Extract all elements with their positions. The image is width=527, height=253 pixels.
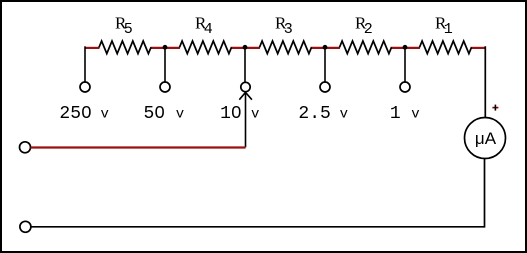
svg-text:μA: μA: [475, 129, 497, 148]
node C junction dot: [323, 45, 328, 50]
label 2.5 v: [298, 104, 348, 124]
svg-text:3: 3: [284, 21, 293, 38]
svg-text:50: 50: [143, 104, 165, 124]
svg-text:10: 10: [220, 104, 242, 124]
label R4: [195, 14, 213, 39]
svg-text:2.5: 2.5: [298, 104, 330, 124]
terminal 250V: [80, 82, 90, 92]
wire R2 to node D: [391, 47, 421, 49]
meter polarity +: [492, 105, 498, 111]
node D junction dot: [403, 45, 408, 50]
label 10 v: [220, 104, 259, 124]
terminal 10V: [241, 82, 250, 91]
svg-text:v: v: [411, 107, 419, 123]
label R2: [355, 14, 373, 39]
wire node C down to 2.5V terminal: [324, 47, 326, 82]
svg-text:v: v: [251, 107, 259, 123]
meter M1: [465, 118, 506, 159]
terminal 50V: [160, 82, 170, 92]
selector arrow wire: [245, 92, 247, 147]
wire meter up to top bus: [484, 46, 486, 117]
wire bottom bus: [31, 226, 485, 228]
input terminal top left: [20, 142, 31, 153]
wire node B down to 10V terminal: [244, 47, 246, 82]
label R1: [435, 14, 453, 39]
selector arrowhead: [239, 92, 252, 99]
svg-text:4: 4: [204, 21, 213, 38]
label 1 v: [390, 104, 420, 124]
wire node D down to 1V terminal: [404, 47, 406, 82]
wire left corner down to 250V terminal: [84, 46, 86, 82]
wire R4 to node B: [231, 47, 261, 49]
svg-text:1: 1: [390, 104, 401, 124]
svg-text:1: 1: [444, 21, 453, 38]
wire bottom right up to meter: [484, 159, 486, 228]
resistor R5: [99, 41, 151, 54]
wire node A down to 50V terminal: [164, 47, 166, 82]
resistor R4: [180, 41, 232, 54]
svg-text:v: v: [100, 107, 108, 123]
terminal 2.5V: [320, 82, 330, 92]
resistor R3: [260, 41, 312, 54]
resistor R1: [420, 41, 472, 54]
svg-text:v: v: [340, 107, 348, 123]
wire R3 to node C: [311, 47, 341, 49]
svg-text:v: v: [176, 107, 184, 123]
terminal 1V: [400, 82, 410, 92]
wire R5 to node A: [151, 47, 181, 49]
label R3: [275, 14, 293, 39]
wire lead left of R5: [85, 47, 100, 49]
wire input to selector: [31, 146, 246, 148]
wire top bus red segments: [85, 47, 486, 49]
label 50 v: [143, 104, 184, 124]
node A junction dot: [163, 45, 168, 50]
resistor R2: [340, 41, 392, 54]
svg-text:2: 2: [364, 21, 373, 38]
input terminal bottom left: [20, 221, 31, 232]
label 250 v: [59, 104, 109, 124]
wire R1 to right corner: [471, 47, 486, 49]
svg-text:5: 5: [124, 21, 133, 38]
node B junction dot: [243, 45, 248, 50]
label R5: [115, 14, 133, 39]
